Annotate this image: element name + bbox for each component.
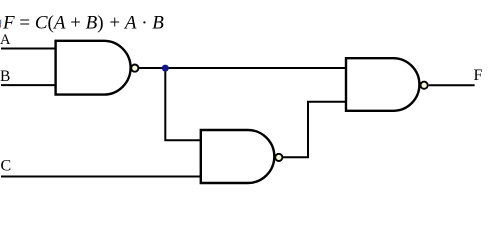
- svg-text:F: F: [474, 67, 483, 84]
- junction node: [162, 65, 169, 72]
- wire input B: [1, 84, 56, 86]
- bubble of U3: [421, 82, 428, 89]
- wire U3 output: [429, 84, 475, 86]
- svg-text:F = C(A + B) + A · B: F = C(A + B) + A · B: [2, 13, 164, 34]
- wire U2 output to U3 bottom input: [283, 102, 346, 158]
- wire input C: [1, 176, 201, 178]
- wire input A: [1, 48, 56, 50]
- bubble of U1: [131, 65, 138, 72]
- nand gate U2 (inputs junction,C): [201, 130, 275, 183]
- subpixel fringe artifact left of F: [0, 20, 1, 25]
- bubble of U2: [275, 154, 282, 161]
- wire U1 output to U3 top input: [139, 67, 346, 69]
- wire junction down to U2 top input: [165, 68, 201, 140]
- nand gate U1 (inputs A,B): [56, 41, 131, 95]
- nand gate U3 (output F): [346, 58, 419, 111]
- svg-text:A: A: [0, 32, 11, 48]
- svg-text:C: C: [1, 157, 12, 174]
- svg-text:B: B: [0, 68, 10, 85]
